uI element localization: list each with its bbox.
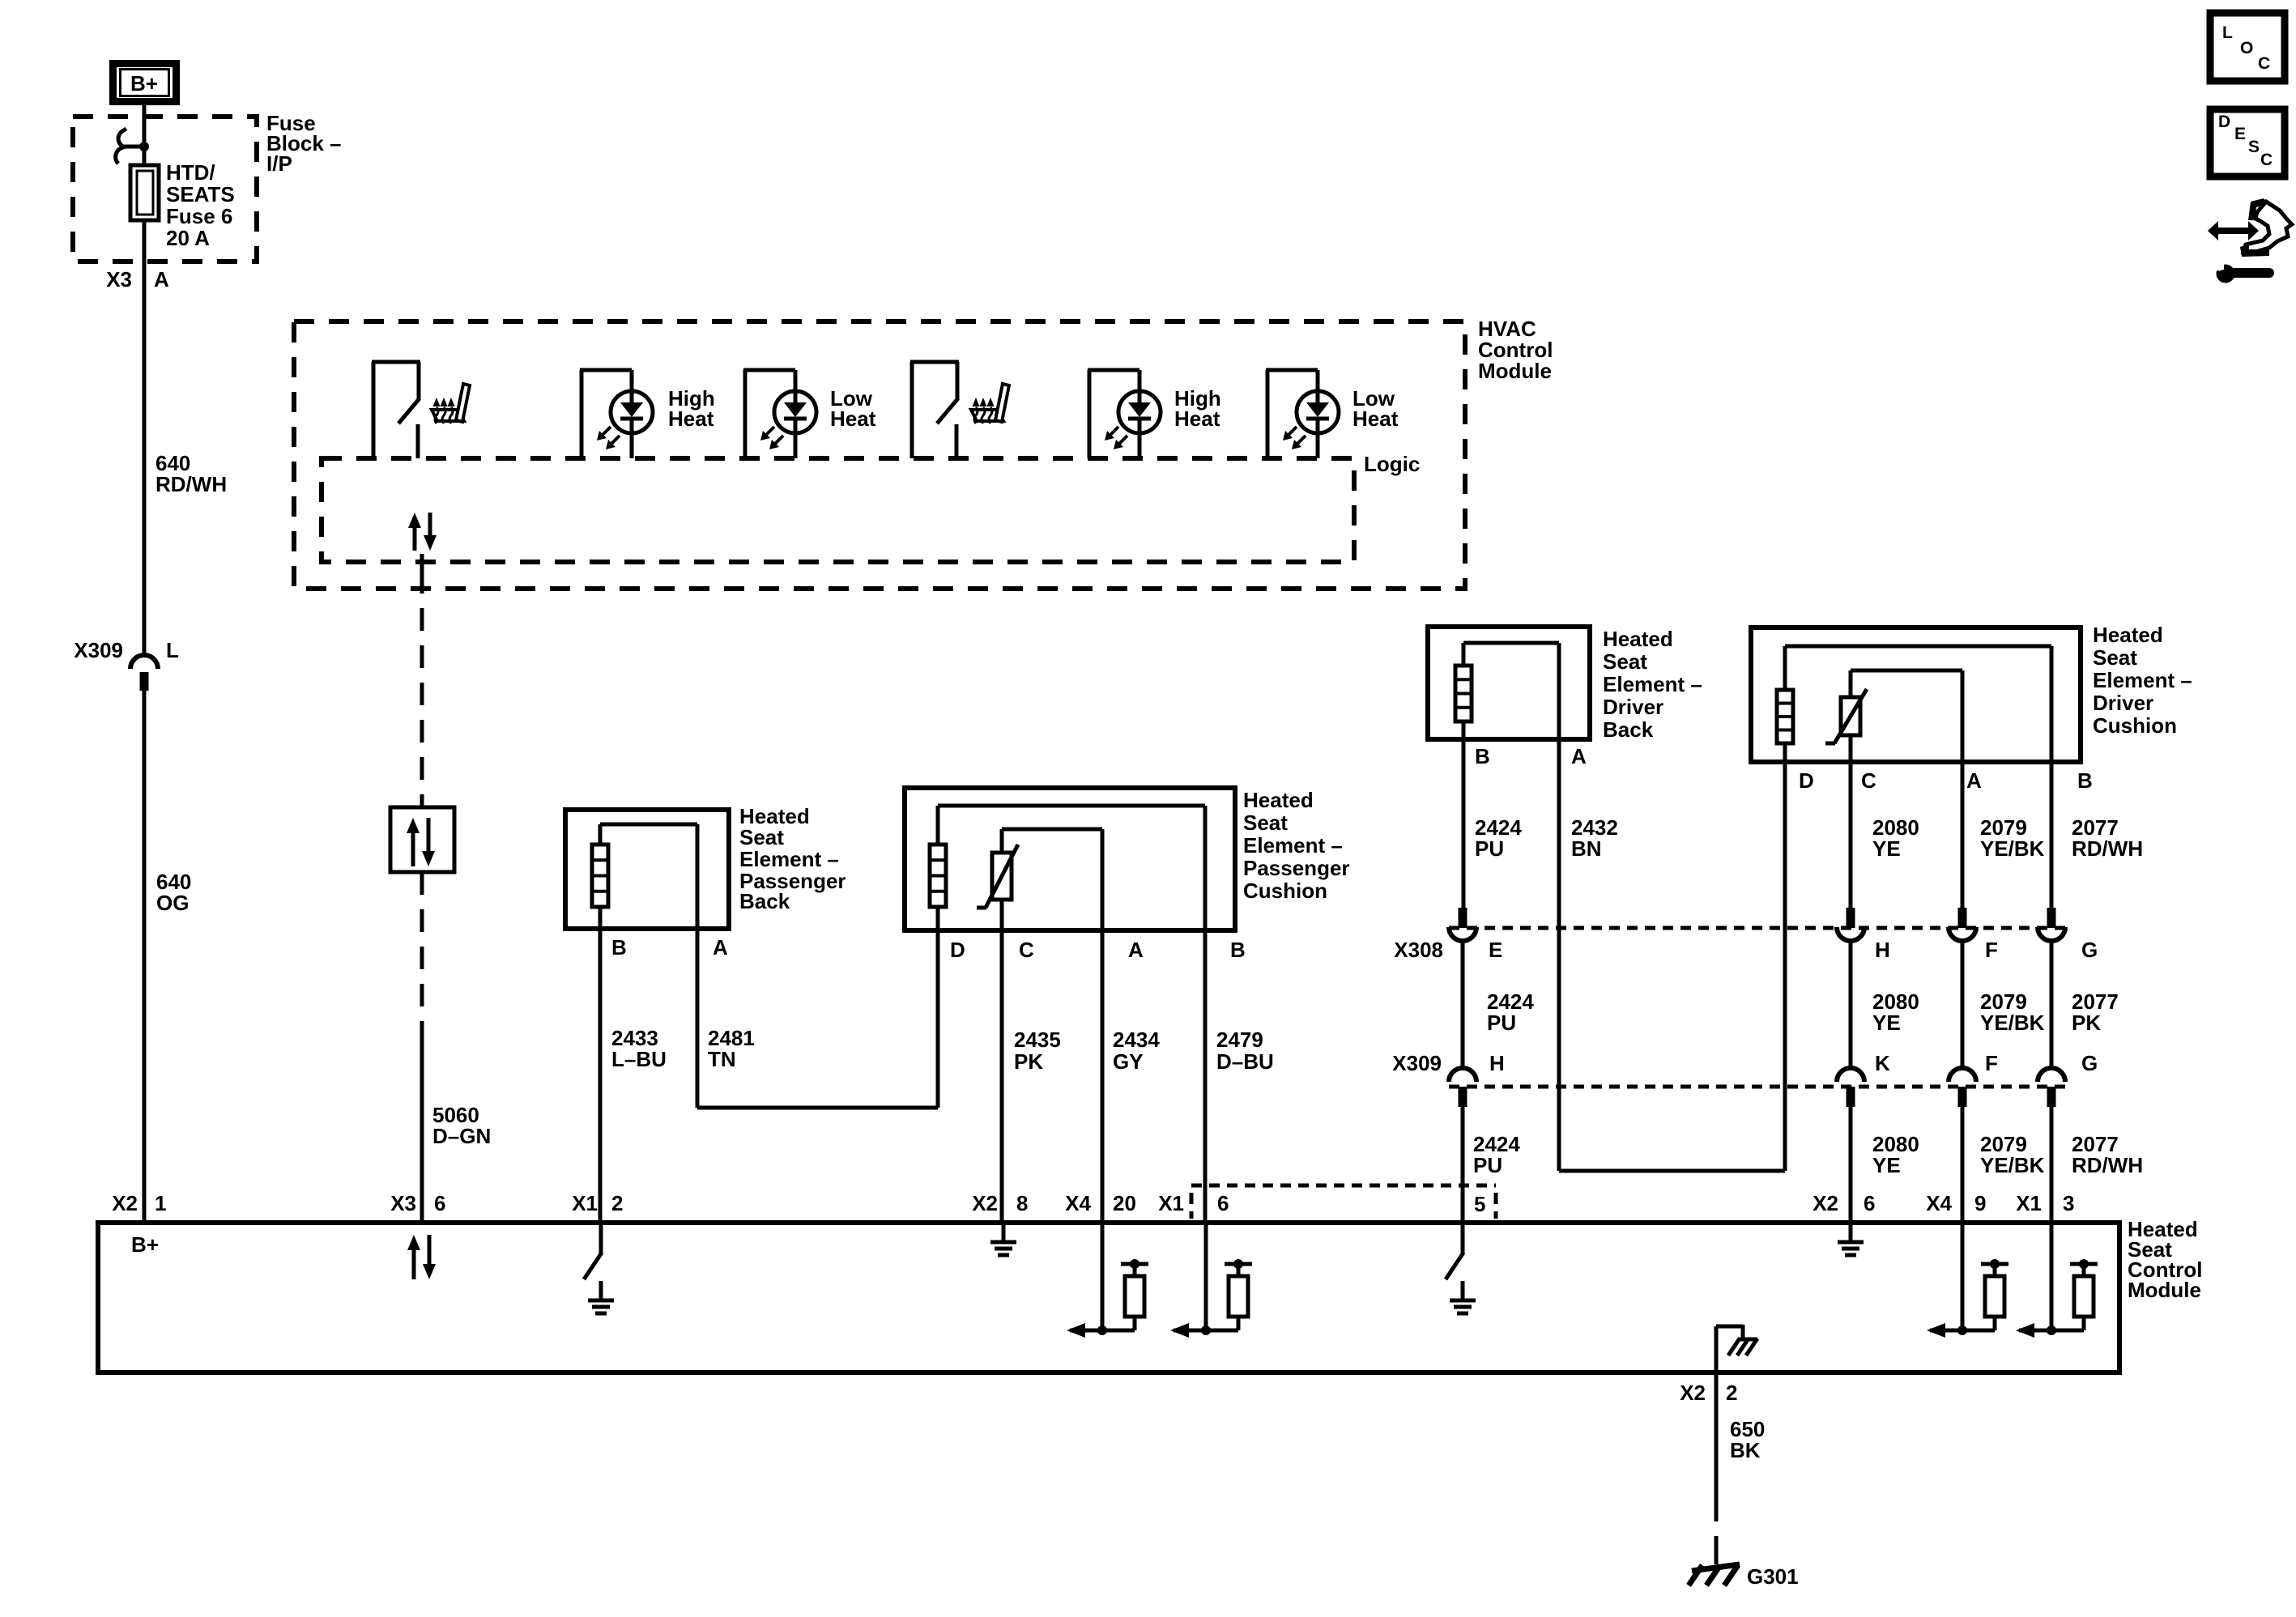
svg-text:X1: X1	[2016, 1191, 2042, 1215]
up/down arrows	[411, 831, 415, 866]
svg-text:K: K	[1875, 1051, 1890, 1075]
svg-text:BN: BN	[1571, 836, 1602, 861]
svg-text:C: C	[1861, 768, 1876, 793]
svg-text:20: 20	[1113, 1191, 1136, 1215]
link wire A to cushion D	[697, 1106, 938, 1110]
LOC legend box	[2210, 13, 2285, 81]
up/down arrows	[413, 526, 417, 551]
svg-text:C: C	[1019, 938, 1034, 962]
svg-text:Module: Module	[1478, 359, 1552, 383]
connector X309 dashed body	[1449, 1085, 2068, 1089]
svg-text:B: B	[1475, 744, 1490, 768]
svg-text:X2: X2	[1813, 1191, 1838, 1215]
svg-text:X309: X309	[74, 638, 123, 662]
wire 2079 YE/BK X308-F to X309-F	[1961, 942, 1965, 1068]
svg-text:Heat: Heat	[830, 406, 876, 431]
svg-text:Element –: Element –	[2093, 668, 2192, 692]
svg-text:SEATS: SEATS	[166, 182, 235, 206]
connector X308-F pin-over-cup	[1958, 908, 1967, 928]
wire 2080 YE X309-K to module X2-6	[1849, 1107, 1853, 1240]
wire pin C 2080 YE	[1849, 735, 1853, 909]
svg-text:B+: B+	[131, 1232, 159, 1257]
svg-text:C: C	[2258, 54, 2270, 73]
svg-text:RD/WH: RD/WH	[2072, 1153, 2143, 1177]
loop element top to pin A	[598, 824, 603, 845]
connector X308 dashed body	[1449, 926, 2068, 930]
svg-text:X2: X2	[112, 1191, 138, 1215]
thermistor	[1841, 697, 1860, 735]
connector X309-K cap-over-pin	[1837, 1068, 1864, 1082]
connector X309-F cap-over-pin	[1949, 1068, 1976, 1082]
up/down arrow box	[390, 807, 454, 872]
wire dashed to G301	[1715, 1499, 1719, 1558]
connector X309-G cap-over-pin	[2038, 1068, 2065, 1082]
svg-text:D–BU: D–BU	[1216, 1049, 1274, 1074]
heated seat icon	[971, 410, 1003, 421]
ground G301	[1715, 1553, 1719, 1564]
svg-text:YE: YE	[1872, 1011, 1901, 1035]
svg-text:S: S	[2248, 138, 2260, 156]
svg-text:Module: Module	[2128, 1278, 2201, 1302]
svg-text:X4: X4	[1926, 1191, 1952, 1215]
wire 650 BK	[1715, 1372, 1719, 1499]
svg-text:BK: BK	[1730, 1438, 1761, 1462]
wire dashed below arrow box	[420, 872, 424, 1038]
svg-text:A: A	[713, 935, 728, 960]
wire pin D driver cushion	[1783, 743, 1787, 1171]
DESC legend box	[2210, 109, 2285, 177]
Heated Seat Element - Passenger Back box	[565, 810, 729, 929]
svg-text:X4: X4	[1065, 1191, 1091, 1215]
junction node	[139, 142, 149, 151]
svg-text:Heated: Heated	[1603, 627, 1673, 651]
svg-text:5: 5	[1474, 1192, 1485, 1216]
connector boundary dashes X1-6 and 5	[1190, 1193, 1194, 1219]
ground	[1461, 1281, 1465, 1299]
svg-text:L–BU: L–BU	[611, 1047, 667, 1071]
Heated Seat Element - Driver Cushion box	[1751, 628, 2081, 762]
loop element to pin B	[936, 806, 940, 845]
switch	[372, 362, 376, 458]
loop element to pin A	[1462, 643, 1466, 666]
svg-text:PK: PK	[1014, 1049, 1043, 1074]
svg-text:6: 6	[1864, 1191, 1875, 1215]
svg-text:B+: B+	[130, 71, 158, 96]
svg-text:Passenger: Passenger	[1243, 856, 1350, 880]
svg-text:PK: PK	[2072, 1011, 2101, 1035]
svg-text:C: C	[2260, 151, 2273, 169]
svg-text:Heat: Heat	[1174, 406, 1220, 431]
module internal: ground at X2-6	[1849, 1223, 1853, 1240]
svg-text:Heat: Heat	[1352, 406, 1399, 431]
heated seat icon	[432, 410, 464, 421]
indicator LED High Heat	[580, 370, 584, 458]
svg-text:L: L	[166, 638, 179, 662]
svg-text:G: G	[2081, 938, 2098, 962]
ground	[1002, 1223, 1006, 1240]
svg-text:I/P: I/P	[266, 151, 292, 176]
sense resistor with arrow	[1961, 1223, 1965, 1330]
connector X308-E pin-over-cup	[1459, 908, 1467, 928]
wire fuse to X309	[143, 220, 147, 655]
svg-text:X2: X2	[1680, 1381, 1706, 1405]
svg-text:B: B	[1230, 938, 1246, 962]
connector X309-H cap-over-pin	[1449, 1068, 1476, 1082]
wire X309 to module X2-1	[143, 691, 147, 1223]
svg-text:H: H	[1875, 938, 1890, 962]
svg-text:Seat: Seat	[1243, 811, 1288, 835]
svg-text:Back: Back	[739, 889, 790, 913]
svg-text:O: O	[2240, 39, 2253, 57]
link wire A to driver cushion D	[1559, 1169, 1785, 1173]
svg-text:D: D	[2218, 113, 2230, 131]
svg-text:20 A: 20 A	[166, 226, 210, 250]
svg-text:9: 9	[1974, 1191, 1986, 1215]
svg-text:A: A	[1128, 938, 1144, 962]
switch to ground	[599, 1223, 603, 1254]
svg-text:3: 3	[2063, 1191, 2074, 1215]
svg-text:B: B	[611, 935, 627, 960]
wire B+ to fuse	[143, 104, 147, 167]
wire 2077 RD/WH X309-G to module X1-3	[2050, 1107, 2054, 1330]
HVAC Control Module dashed box	[294, 321, 1465, 589]
svg-text:RD/WH: RD/WH	[2072, 836, 2143, 861]
svg-text:L: L	[2222, 23, 2233, 42]
switch to ground	[1461, 1223, 1465, 1254]
svg-text:TN: TN	[708, 1047, 736, 1071]
wrench	[2217, 265, 2235, 283]
svg-text:A: A	[1966, 768, 1982, 793]
svg-text:GY: GY	[1113, 1049, 1144, 1074]
wire 2079 YE/BK X309-F to module X4-9	[1961, 1107, 1965, 1330]
switch	[910, 362, 914, 458]
svg-text:YE: YE	[1872, 1153, 1901, 1177]
svg-text:Cushion: Cushion	[2093, 713, 2177, 738]
svg-text:PU: PU	[1473, 1153, 1502, 1177]
dashed link pin X1-6 to pin 5	[1191, 1184, 1496, 1188]
fuse block I/P dashed box	[73, 117, 257, 262]
thermistor	[992, 853, 1012, 900]
svg-text:G301: G301	[1747, 1564, 1799, 1589]
svg-text:G: G	[2081, 1051, 2098, 1075]
up/down arrows	[412, 1248, 416, 1279]
svg-text:Cushion: Cushion	[1243, 879, 1327, 903]
svg-text:PU: PU	[1487, 1011, 1516, 1035]
Logic dashed box	[322, 458, 1354, 562]
adjustable component icon (arrow + wrench)	[2208, 221, 2259, 240]
ground	[599, 1281, 603, 1299]
wire 2077 PK X308-G to X309-G	[2050, 942, 2054, 1068]
svg-text:YE/BK: YE/BK	[1980, 1011, 2045, 1035]
svg-text:2: 2	[611, 1191, 623, 1215]
wire logic output	[420, 554, 424, 571]
svg-text:Seat: Seat	[2093, 645, 2137, 670]
svg-text:8: 8	[1016, 1191, 1028, 1215]
connector X309 pin L	[130, 655, 158, 669]
svg-text:Heated: Heated	[2093, 623, 2163, 647]
svg-text:YE/BK: YE/BK	[1980, 836, 2045, 861]
svg-text:X309: X309	[1392, 1051, 1442, 1075]
svg-text:Element –: Element –	[1603, 672, 1702, 696]
svg-text:2434: 2434	[1113, 1028, 1160, 1052]
svg-text:X3: X3	[106, 267, 132, 291]
sense resistor with arrow	[1204, 1223, 1208, 1330]
svg-text:YE/BK: YE/BK	[1980, 1153, 2045, 1177]
svg-text:RD/WH: RD/WH	[155, 472, 227, 496]
svg-text:X308: X308	[1394, 938, 1443, 962]
svg-text:A: A	[154, 267, 169, 291]
wire pin D cushion	[936, 907, 940, 1108]
svg-text:6: 6	[434, 1191, 445, 1215]
indicator LED Low Heat	[1266, 370, 1270, 458]
svg-text:D: D	[950, 938, 965, 962]
svg-text:F: F	[1985, 1051, 1998, 1075]
svg-text:X3: X3	[390, 1191, 416, 1215]
heating element	[1455, 666, 1472, 721]
svg-text:Driver: Driver	[2093, 691, 2153, 715]
svg-text:6: 6	[1217, 1191, 1229, 1215]
wire pin B passenger back 2433	[598, 907, 603, 1223]
svg-text:Logic: Logic	[1364, 452, 1420, 476]
svg-text:OG: OG	[156, 891, 189, 915]
svg-text:A: A	[1571, 744, 1587, 768]
svg-text:PU: PU	[1475, 836, 1504, 861]
svg-text:X1: X1	[572, 1191, 598, 1215]
loop thermistor to pin A	[1849, 670, 1853, 697]
wire 2424 PU X309-H to module pin 5	[1461, 1107, 1465, 1254]
svg-text:Driver: Driver	[1603, 695, 1663, 719]
ground	[1849, 1223, 1853, 1240]
wire pin C 2435 PK	[1000, 900, 1004, 1223]
svg-text:X2: X2	[972, 1191, 998, 1215]
sense resistor with arrow	[2050, 1223, 2054, 1330]
svg-text:E: E	[2234, 125, 2246, 143]
svg-text:Seat: Seat	[1603, 649, 1647, 674]
Heated Seat Element - Passenger Cushion box	[905, 788, 1235, 930]
svg-text:2: 2	[1726, 1381, 1737, 1405]
wire 5060 D-GN to module	[420, 1038, 424, 1223]
indicator LED High Heat	[1088, 370, 1092, 458]
svg-text:Back: Back	[1603, 717, 1654, 742]
svg-text:Heat: Heat	[668, 406, 714, 431]
loop thermistor to pin A	[1000, 829, 1004, 853]
wire 2080 YE X308-H to X309-K	[1849, 942, 1853, 1068]
Heated Seat Control Module box	[98, 1223, 2119, 1372]
heating element	[930, 845, 946, 907]
svg-text:Seat: Seat	[739, 825, 784, 849]
svg-text:B: B	[2077, 768, 2093, 793]
svg-text:X1: X1	[1158, 1191, 1184, 1215]
svg-text:2479: 2479	[1216, 1028, 1263, 1052]
svg-text:2435: 2435	[1014, 1028, 1061, 1052]
Heated Seat Element - Driver Back box	[1428, 627, 1590, 739]
svg-text:F: F	[1985, 938, 1998, 962]
svg-text:Heated: Heated	[1243, 788, 1314, 812]
bus tap hook	[122, 145, 144, 149]
svg-text:H: H	[1489, 1051, 1505, 1075]
svg-text:HTD/: HTD/	[166, 160, 215, 185]
heating element	[1777, 690, 1793, 743]
svg-text:D–GN: D–GN	[432, 1124, 491, 1148]
module internal chassis ground at X2-2	[1715, 1326, 1719, 1372]
heating element	[592, 845, 608, 907]
svg-text:Fuse 6: Fuse 6	[166, 204, 232, 228]
wire pin B driver back 2424 PU	[1462, 721, 1466, 909]
connector X308-G pin-over-cup	[2047, 908, 2056, 928]
connector X308-H pin-over-cup	[1847, 908, 1855, 928]
loop element to pin B	[1783, 646, 1787, 690]
svg-text:1: 1	[155, 1191, 166, 1215]
svg-text:YE: YE	[1872, 836, 1901, 861]
svg-text:Element –: Element –	[1243, 833, 1343, 857]
module internal: ground at X2-8	[1002, 1223, 1006, 1240]
wire 2424 PU X308-E to X309-H	[1461, 942, 1465, 1068]
fuse HTD/SEATS Fuse 6 20A	[130, 165, 159, 220]
svg-text:Element –: Element –	[739, 847, 839, 871]
sense resistor with arrow	[1101, 1223, 1105, 1330]
indicator LED Low Heat	[743, 370, 748, 458]
power symbol B+	[113, 64, 177, 102]
svg-text:E: E	[1489, 938, 1502, 962]
svg-text:D: D	[1799, 768, 1814, 793]
